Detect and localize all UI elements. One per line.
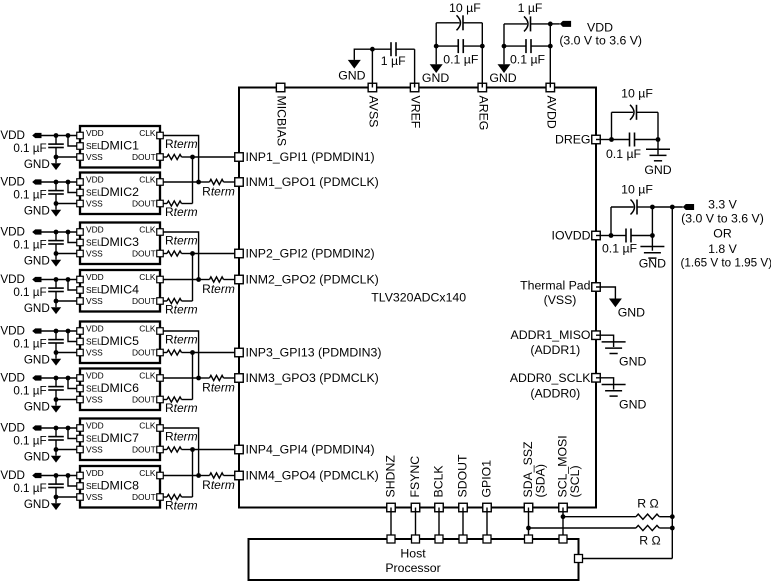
svg-text:DMIC6: DMIC6 (101, 381, 139, 395)
svg-text:Rterm: Rterm (165, 333, 198, 347)
wire host SPI/I2C supply (583, 558, 673, 560)
svg-text:DOUT: DOUT (132, 296, 156, 306)
node PDMCLK1 junction (196, 180, 209, 185)
node host pin SDOUT (459, 535, 467, 543)
wire supply rail (670, 207, 675, 559)
svg-text:(1.65 V to 1.95 V): (1.65 V to 1.95 V) (681, 257, 771, 270)
svg-text:VSS: VSS (86, 152, 103, 162)
svg-text:GND: GND (24, 158, 50, 171)
svg-text:Rterm: Rterm (202, 185, 235, 199)
svg-text:DMIC8: DMIC8 (101, 479, 139, 493)
wire VSS (54, 201, 77, 206)
svg-text:DOUT: DOUT (132, 152, 156, 162)
ground (AVSS) (338, 49, 372, 82)
microphone DMIC2 (77, 173, 164, 215)
svg-text:GND: GND (338, 68, 365, 82)
svg-text:CLK: CLK (139, 128, 156, 138)
wire DMIC2 CLK to junction (163, 181, 198, 183)
capacitor 0.1uF (DMIC4 bypass) (13, 280, 63, 302)
wire SHDNZ to host (390, 508, 392, 540)
capacitor 0.1uF (DMIC2 bypass) (13, 182, 63, 204)
svg-text:0.1 µF: 0.1 µF (13, 142, 46, 155)
svg-text:ADDR0_SCLK: ADDR0_SCLK (510, 371, 591, 385)
ground (AREG) (422, 46, 449, 85)
svg-text:BCLK: BCLK (431, 465, 445, 498)
svg-text:Rterm: Rterm (202, 478, 235, 492)
svg-text:VDD: VDD (86, 468, 104, 478)
node host pin SDA_SSZ (525, 535, 533, 543)
capacitor 0.1uF (AREG) (434, 39, 482, 66)
wire VREF up (414, 49, 416, 87)
pin INP1_GPI1 of U1 (235, 150, 375, 164)
wire SEL tie-high (68, 476, 77, 487)
wire SCL_MOSI to host (562, 508, 564, 540)
svg-text:Rterm: Rterm (165, 401, 198, 415)
svg-text:GND: GND (24, 451, 50, 464)
svg-text:INP4_GPI4 (PDMDIN4): INP4_GPI4 (PDMDIN4) (246, 443, 375, 457)
svg-text:10 µF: 10 µF (449, 1, 481, 15)
svg-text:VDD: VDD (86, 421, 104, 431)
svg-text:DMIC3: DMIC3 (101, 235, 139, 249)
wire AREG up (480, 23, 485, 88)
node AVSS/VREF junction (370, 47, 375, 52)
svg-text:10 µF: 10 µF (621, 182, 653, 196)
svg-text:DMIC1: DMIC1 (101, 139, 139, 153)
wire join DOUTs (192, 157, 194, 204)
wire AVSS up (371, 49, 373, 87)
capacitor 0.1uF (IOVDD) (602, 229, 652, 256)
svg-text:VDD: VDD (86, 272, 104, 282)
wire SDA_SSZ to host (528, 508, 530, 540)
svg-text:R Ω: R Ω (639, 533, 661, 547)
svg-text:DMIC5: DMIC5 (101, 334, 139, 348)
svg-text:IOVDD: IOVDD (552, 229, 591, 243)
ground (ADDR0) (596, 378, 646, 412)
svg-text:CLK: CLK (139, 421, 156, 431)
svg-text:SDOUT: SDOUT (455, 454, 469, 498)
svg-text:(ADDR1): (ADDR1) (530, 343, 580, 357)
pin INP2_GPI2 of U1 (235, 247, 375, 261)
wire SEL tie-high (68, 136, 77, 147)
wire (41, 180, 77, 185)
svg-text:0.1 µF: 0.1 µF (443, 52, 479, 66)
svg-text:R Ω: R Ω (637, 497, 659, 511)
svg-text:0.1 µF: 0.1 µF (606, 147, 642, 161)
svg-text:Rterm: Rterm (165, 430, 198, 444)
svg-text:AVDD: AVDD (544, 96, 558, 129)
svg-text:VDD: VDD (86, 324, 104, 334)
svg-text:CLK: CLK (139, 175, 156, 185)
wire GPIO1 to host (486, 508, 488, 540)
microphone DMIC3 (77, 223, 164, 265)
svg-text:ADDR1_MISO: ADDR1_MISO (511, 328, 591, 342)
svg-text:AVSS: AVSS (366, 96, 380, 128)
resistor R (SCL pull-up) (636, 497, 672, 520)
pin ADDR1_MISO of U1 (511, 328, 601, 357)
capacitor 0.1uF (DMIC3 bypass) (13, 232, 63, 254)
resistor Rterm (DMIC6 DOUT) (163, 397, 197, 415)
pin MICBIAS of U1 (275, 83, 289, 146)
svg-text:INP2_GPI2 (PDMDIN2): INP2_GPI2 (PDMDIN2) (246, 247, 375, 261)
node host pin SCL_MOSI (559, 535, 567, 543)
capacitor 0.1uF (DMIC7 bypass) (13, 428, 63, 450)
wire VSS (54, 251, 77, 256)
capacitor 10uF (IOVDD) (611, 182, 655, 235)
svg-text:INM4_GPO4 (PDMCLK): INM4_GPO4 (PDMCLK) (246, 469, 379, 483)
wire VSS (54, 155, 77, 160)
pin SDA_SSZ of U1 (521, 441, 547, 512)
node PDMDIN3 junction (190, 350, 235, 355)
svg-text:(SDA): (SDA) (533, 464, 547, 497)
wire PDMCLK3: DMIC5 CLK to junction (163, 331, 198, 378)
wire BCLK to host (438, 508, 440, 540)
pin AREG of U1 (476, 83, 490, 130)
svg-text:GND: GND (619, 397, 646, 411)
svg-text:Rterm: Rterm (165, 137, 198, 151)
microphone DMIC8 (77, 466, 164, 508)
svg-text:0.1 µF: 0.1 µF (13, 385, 46, 398)
ground (AVDD) (489, 46, 516, 85)
wire (41, 473, 77, 478)
svg-text:VDD: VDD (0, 129, 25, 142)
node host pin FSYNC (412, 535, 420, 543)
svg-text:VSS: VSS (86, 395, 103, 405)
svg-text:VDD: VDD (0, 325, 25, 338)
capacitor 10uF (AREG) (436, 1, 482, 46)
pin GPIO1 of U1 (479, 460, 493, 512)
svg-text:VDD: VDD (86, 175, 104, 185)
pin AVSS of U1 (366, 83, 380, 127)
capacitor 0.1uF (DMIC6 bypass) (13, 378, 63, 400)
microphone DMIC1 (77, 126, 164, 168)
node host pin SHDNZ (387, 535, 395, 543)
wire IOVDD out (596, 233, 613, 238)
wire AVDD up (548, 22, 553, 88)
host processor block (249, 539, 579, 580)
svg-text:FSYNC: FSYNC (408, 456, 422, 498)
wire (41, 329, 77, 334)
wire SEL tie-high (68, 182, 77, 193)
svg-text:Host: Host (400, 547, 426, 561)
svg-text:10 µF: 10 µF (621, 87, 653, 101)
svg-text:0.1 µF: 0.1 µF (13, 482, 46, 495)
pin INM3_GPO3 of U1 (235, 371, 379, 385)
pin VREF of U1 (409, 83, 423, 129)
wire PDMCLK2: DMIC3 CLK to junction (163, 232, 198, 280)
capacitor 0.1uF (DMIC1 bypass) (13, 136, 63, 158)
svg-text:DOUT: DOUT (132, 347, 156, 357)
wire join DOUTs (192, 353, 194, 400)
wire PDMCLK4: DMIC7 CLK to junction (163, 428, 198, 476)
svg-text:(ADDR0): (ADDR0) (530, 386, 580, 400)
svg-text:TLV320ADCx140: TLV320ADCx140 (371, 291, 466, 305)
ground (DREG) (644, 137, 671, 177)
resistor Rterm (PDMCLK4 line) (202, 473, 235, 492)
svg-text:GPIO1: GPIO1 (479, 460, 493, 498)
svg-text:VSS: VSS (86, 492, 103, 502)
svg-text:(3.0 V to 3.6 V): (3.0 V to 3.6 V) (559, 34, 642, 48)
svg-text:(SCL): (SCL) (568, 465, 582, 497)
svg-text:0.1 µF: 0.1 µF (510, 52, 546, 66)
svg-text:1.8 V: 1.8 V (708, 242, 738, 256)
svg-text:VSS: VSS (86, 348, 103, 358)
node SCL junction (561, 514, 636, 519)
node PDMCLK3 junction (196, 376, 209, 381)
svg-text:Rterm: Rterm (202, 381, 235, 395)
ground (ADDR1) (596, 335, 646, 369)
node PDMDIN1 junction (190, 155, 235, 160)
svg-text:(3.0 V to 3.6 V): (3.0 V to 3.6 V) (681, 212, 764, 226)
svg-text:DMIC4: DMIC4 (101, 283, 139, 297)
node VDD (DMIC8 supply tag) (0, 469, 41, 482)
wire DMIC6 CLK to junction (163, 377, 198, 379)
svg-text:1 µF: 1 µF (381, 54, 406, 68)
wire join DOUTs (192, 450, 194, 498)
svg-text:VSS: VSS (86, 199, 103, 209)
resistor Rterm (DMIC2 DOUT) (163, 201, 197, 219)
svg-text:GND: GND (24, 498, 50, 511)
svg-text:CLK: CLK (139, 225, 156, 235)
svg-text:VDD: VDD (0, 372, 25, 385)
svg-text:DOUT: DOUT (132, 198, 156, 208)
svg-text:GND: GND (422, 71, 449, 85)
svg-text:CLK: CLK (139, 371, 156, 381)
svg-text:INP3_GPI13 (PDMDIN3): INP3_GPI13 (PDMDIN3) (246, 346, 382, 360)
svg-text:GND: GND (489, 71, 516, 85)
svg-text:DOUT: DOUT (132, 394, 156, 404)
svg-text:VDD: VDD (0, 422, 25, 435)
resistor Rterm (DMIC1 DOUT) (163, 137, 197, 160)
ground (DMIC8) (24, 497, 61, 511)
node host pin SPI/I2C (575, 555, 583, 563)
svg-text:GND: GND (24, 354, 50, 367)
wire SEL tie-high (68, 232, 77, 243)
wire SEL tie-high (68, 280, 77, 291)
svg-text:GND: GND (24, 401, 50, 414)
wire VSS (54, 299, 77, 304)
svg-text:(VSS): (VSS) (544, 293, 577, 307)
svg-text:0.1 µF: 0.1 µF (13, 189, 46, 202)
pin INM1_GPO1 of U1 (235, 175, 379, 189)
svg-text:Rterm: Rterm (165, 234, 198, 248)
resistor Rterm (PDMCLK2 line) (202, 277, 235, 296)
svg-text:Rterm: Rterm (165, 303, 198, 317)
svg-text:GND: GND (644, 163, 671, 177)
svg-text:Rterm: Rterm (165, 499, 198, 513)
svg-text:VDD: VDD (86, 225, 104, 235)
node VDD (DMIC5 supply tag) (0, 325, 41, 338)
svg-text:OR: OR (713, 226, 732, 240)
wire SEL tie-high (68, 331, 77, 342)
svg-text:AREG: AREG (476, 96, 490, 131)
svg-text:VDD: VDD (0, 273, 25, 286)
resistor Rterm (DMIC5 DOUT) (163, 333, 197, 356)
svg-text:INM1_GPO1 (PDMCLK): INM1_GPO1 (PDMCLK) (246, 175, 379, 189)
ground (DMIC4) (24, 301, 61, 315)
svg-text:0.1 µF: 0.1 µF (13, 239, 46, 252)
node host pin GPIO1 (483, 535, 491, 543)
wire DREG out (596, 137, 614, 142)
wire SDOUT to host (462, 508, 464, 540)
wire (41, 230, 77, 235)
svg-text:CLK: CLK (139, 324, 156, 334)
pin INM2_GPO2 of U1 (235, 273, 379, 287)
resistor Rterm (PDMCLK3 line) (202, 375, 235, 394)
pin INP3_GPI13 of U1 (235, 346, 382, 360)
svg-text:VREF: VREF (409, 96, 423, 129)
resistor Rterm (DMIC3 DOUT) (163, 234, 197, 257)
microphone DMIC4 (77, 270, 164, 312)
svg-text:DMIC2: DMIC2 (101, 185, 139, 199)
wire PDMCLK1: DMIC1 CLK to junction (163, 136, 198, 183)
svg-text:CLK: CLK (139, 468, 156, 478)
microphone DMIC5 (77, 322, 164, 364)
capacitor 1uF (VREF) (372, 42, 414, 68)
svg-text:3.3 V: 3.3 V (708, 197, 738, 211)
ground (Thermal Pad) (596, 287, 645, 320)
wire VSS (54, 350, 77, 355)
svg-text:DMIC7: DMIC7 (101, 431, 139, 445)
svg-text:VDD: VDD (587, 21, 613, 35)
wire join DOUTs (192, 254, 194, 302)
capacitor 0.1uF (AVDD) (502, 39, 551, 66)
pin Thermal Pad (VSS) of U1 (520, 278, 600, 306)
node PDMDIN4 junction (190, 447, 235, 452)
svg-text:Processor: Processor (385, 561, 440, 575)
resistor R (SDA pull-up) (636, 525, 672, 547)
svg-text:CLK: CLK (139, 272, 156, 282)
svg-text:Rterm: Rterm (202, 282, 235, 296)
capacitor 0.1uF (DREG) (606, 133, 658, 161)
wire DMIC4 CLK to junction (163, 279, 198, 281)
svg-text:0.1 µF: 0.1 µF (13, 338, 46, 351)
node SDA junction (526, 526, 636, 531)
svg-text:DOUT: DOUT (132, 248, 156, 258)
svg-text:VDD: VDD (86, 371, 104, 381)
node VDD (DMIC2 supply tag) (0, 176, 41, 189)
node VDD supply tag (550, 21, 642, 48)
svg-text:VDD: VDD (0, 226, 25, 239)
capacitor 1uF (AVDD) (504, 1, 550, 46)
wire (41, 376, 77, 381)
svg-text:GND: GND (639, 257, 666, 271)
svg-text:INP1_GPI1 (PDMDIN1): INP1_GPI1 (PDMDIN1) (246, 150, 375, 164)
ground (DMIC6) (24, 400, 61, 414)
node VDD (DMIC7 supply tag) (0, 422, 41, 435)
op-amp U1 TLV320ADCx140 IC body (239, 88, 596, 508)
svg-text:VDD: VDD (0, 469, 25, 482)
capacitor 0.1uF (DMIC8 bypass) (13, 476, 63, 498)
svg-text:VDD: VDD (86, 128, 104, 138)
wire FSYNC to host (415, 508, 417, 540)
pin DREG of U1 (555, 133, 600, 147)
wire (41, 426, 77, 431)
node VDD (DMIC3 supply tag) (0, 226, 41, 239)
capacitor 10uF (DREG) (612, 87, 659, 140)
svg-text:VSS: VSS (86, 249, 103, 259)
svg-text:0.1 µF: 0.1 µF (13, 286, 46, 299)
capacitor 0.1uF (DMIC5 bypass) (13, 331, 63, 353)
wire (41, 133, 77, 138)
wire VSS (54, 447, 77, 452)
svg-text:GND: GND (619, 355, 646, 369)
wire (41, 277, 77, 282)
svg-text:GND: GND (24, 205, 50, 218)
pin ADDR0_SCLK of U1 (510, 371, 600, 401)
node PDMCLK4 junction (196, 473, 209, 478)
node VDD (DMIC4 supply tag) (0, 273, 41, 286)
svg-text:Rterm: Rterm (165, 205, 198, 219)
svg-text:GND: GND (24, 255, 50, 268)
node PDMDIN2 junction (190, 251, 235, 256)
resistor Rterm (DMIC7 DOUT) (163, 430, 197, 453)
pin INP4_GPI4 of U1 (235, 443, 375, 457)
node PDMCLK2 junction (196, 277, 209, 282)
svg-text:VSS: VSS (86, 296, 103, 306)
wire DMIC8 CLK to junction (163, 475, 198, 477)
node VDD (DMIC6 supply tag) (0, 372, 41, 385)
svg-text:DOUT: DOUT (132, 492, 156, 502)
node host pin BCLK (435, 535, 443, 543)
node IOVDD supply tag 3.3V (652, 197, 771, 269)
svg-text:SHDNZ: SHDNZ (383, 455, 397, 498)
resistor Rterm (PDMCLK1 line) (202, 179, 235, 198)
svg-text:INM2_GPO2 (PDMCLK): INM2_GPO2 (PDMCLK) (246, 273, 379, 287)
ground (DMIC5) (24, 353, 61, 367)
svg-text:INM3_GPO3 (PDMCLK): INM3_GPO3 (PDMCLK) (246, 371, 379, 385)
pin SCL_MOSI of U1 (555, 435, 581, 511)
svg-text:0.1 µF: 0.1 µF (602, 242, 638, 256)
pin AVDD of U1 (544, 83, 558, 129)
microphone DMIC6 (77, 369, 164, 411)
microphone DMIC7 (77, 419, 164, 461)
ground (DMIC1) (24, 157, 61, 171)
svg-text:GND: GND (24, 302, 50, 315)
svg-text:DREG: DREG (555, 133, 591, 147)
svg-text:GND: GND (618, 306, 645, 320)
ground (DMIC7) (24, 450, 61, 464)
node VDD (DMIC1 supply tag) (0, 129, 41, 142)
pin IOVDD of U1 (552, 229, 601, 243)
wire SEL tie-high (68, 378, 77, 389)
resistor Rterm (DMIC4 DOUT) (163, 298, 197, 316)
pin INM4_GPO4 of U1 (235, 469, 379, 483)
resistor Rterm (DMIC8 DOUT) (163, 494, 197, 512)
wire SEL tie-high (68, 428, 77, 439)
svg-text:0.1 µF: 0.1 µF (13, 435, 46, 448)
wire VSS (54, 397, 77, 402)
svg-text:1 µF: 1 µF (518, 1, 543, 15)
pin FSYNC of U1 (408, 456, 422, 512)
pin SDOUT of U1 (455, 454, 469, 512)
svg-text:VDD: VDD (0, 176, 25, 189)
pin BCLK of U1 (431, 465, 445, 512)
ground (DMIC2) (24, 204, 61, 218)
wire VSS (54, 495, 77, 500)
ground (IOVDD) (639, 233, 666, 270)
svg-text:Thermal Pad: Thermal Pad (520, 278, 591, 292)
ground (DMIC3) (24, 254, 61, 268)
svg-text:MICBIAS: MICBIAS (275, 96, 289, 147)
pin SHDNZ of U1 (383, 455, 397, 512)
svg-text:DOUT: DOUT (132, 444, 156, 454)
svg-text:VSS: VSS (86, 445, 103, 455)
